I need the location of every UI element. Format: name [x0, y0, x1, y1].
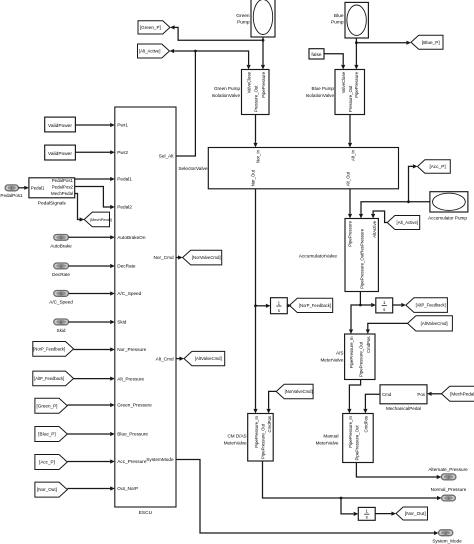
- block: PedalSignals: [29, 178, 75, 207]
- svg-text:Green_Pressure: Green_Pressure: [117, 403, 152, 408]
- wire NorP_Feedback to Nor_Pressure: [74, 347, 115, 351]
- from tag [Alt_Active] (accumulator): [387, 216, 420, 230]
- valve block: A/S MeterValve: [320, 334, 375, 380]
- svg-text:[AltValveCmd]: [AltValveCmd]: [195, 356, 222, 361]
- inport 2 AutoBrake: [54, 235, 69, 241]
- svg-text:PipePressure: PipePressure: [354, 71, 359, 97]
- svg-text:Alt_Out: Alt_Out: [346, 171, 351, 186]
- svg-text:[NorP_Feedback]: [NorP_Feedback]: [299, 303, 331, 308]
- wire AutoBrake to AutoBrakeOn: [69, 235, 115, 239]
- svg-text:PipePressure_Out: PipePressure_Out: [355, 425, 360, 461]
- svg-text:Pressure_Out: Pressure_Out: [253, 85, 258, 112]
- svg-text:CmdPos: CmdPos: [267, 416, 272, 432]
- label DecRate: [52, 272, 70, 277]
- svg-text:[Green_P]: [Green_P]: [140, 25, 161, 30]
- integrator block 1/s (alt feedback): [376, 298, 393, 313]
- block: MechanicalPedal: [380, 385, 427, 411]
- from tag [NorValveCmd] (middle): [276, 384, 313, 399]
- svg-text:Nor_Out: Nor_Out: [251, 169, 256, 186]
- svg-text:[MechPedal]: [MechPedal]: [90, 217, 112, 222]
- svg-text:Pedal1: Pedal1: [117, 177, 132, 182]
- svg-text:ValidPower: ValidPower: [48, 123, 72, 129]
- svg-text:Blue: Blue: [334, 13, 344, 19]
- svg-text:Pwr2: Pwr2: [117, 150, 128, 155]
- block: ValidPower 1: [45, 117, 76, 132]
- wire MechanicalPedal Cmd to Manual CmdPos: [363, 394, 380, 413]
- goto tag [Green_P] (top left): [138, 21, 170, 34]
- svg-text:PedalSignals: PedalSignals: [38, 201, 67, 207]
- svg-text:AltActive: AltActive: [372, 220, 377, 237]
- from tag [AltP_Feedback] (left column): [33, 371, 74, 386]
- svg-text:[Blue_P]: [Blue_P]: [38, 432, 55, 437]
- wire [AltValveCmd] to A/S CmdPos: [366, 323, 408, 334]
- svg-text:ValveClose: ValveClose: [341, 71, 346, 93]
- svg-text:Pedal1: Pedal1: [31, 185, 45, 190]
- svg-text:Accumulator Pump: Accumulator Pump: [428, 216, 467, 221]
- svg-text:SystemMode: SystemMode: [146, 457, 174, 462]
- valve block: Manual MeterValve: [316, 414, 374, 463]
- svg-text:A/S: A/S: [336, 351, 343, 356]
- svg-text:[NorP_Feedback]: [NorP_Feedback]: [33, 346, 65, 351]
- svg-text:PipePressure: PipePressure: [261, 71, 266, 97]
- wire Alt_Out to AccumulatorValve PipePressure: [348, 189, 352, 219]
- svg-text:DecRate: DecRate: [52, 272, 70, 277]
- from tag [Green_P] (left column): [35, 398, 67, 413]
- wire AltP_Feedback to Alt_Pressure: [74, 377, 115, 381]
- wire PedalPos1 to Pedal1: [75, 177, 115, 181]
- svg-text:Cmd: Cmd: [382, 392, 392, 397]
- svg-text:CM D/AS: CM D/AS: [227, 434, 246, 439]
- label AutoBrake: [50, 243, 72, 248]
- svg-text:Acc_Pressure: Acc_Pressure: [117, 459, 147, 464]
- svg-text:PipePressure_OutResPressure: PipePressure_OutResPressure: [359, 228, 364, 289]
- valve block: SelectorValve: [178, 148, 398, 189]
- wire Manual valve out to Alternate_Pressure: [356, 463, 441, 480]
- wire Sel_Alt to Alt_Active goto and Green valve ValveClose: [170, 49, 251, 156]
- label Alternate_Pressure: [428, 467, 468, 472]
- label A/C_Speed: [49, 299, 73, 304]
- svg-text:AccumulatorValve: AccumulatorValve: [299, 254, 338, 260]
- svg-text:[AltP_Feedback]: [AltP_Feedback]: [34, 376, 64, 381]
- wire ValidPower2 to Pwr2: [75, 150, 114, 154]
- svg-text:PipePressure: PipePressure: [348, 220, 353, 246]
- wire CM valve out to Normal_Pressure and integrator3: [263, 461, 442, 516]
- svg-text:PipePressure_In: PipePressure_In: [348, 415, 353, 447]
- wire Skid: [69, 320, 115, 324]
- svg-text:[AltP_Feedback]: [AltP_Feedback]: [416, 303, 446, 308]
- outport 1 Normal_Pressure: [442, 495, 456, 501]
- valve block: AccumulatorValve: [299, 219, 379, 292]
- source pump block: Accumulator Pump: [428, 192, 468, 221]
- svg-text:[Acc_P]: [Acc_P]: [430, 164, 446, 169]
- svg-text:Pump: Pump: [237, 19, 250, 25]
- svg-text:[Blue_P]: [Blue_P]: [422, 40, 440, 45]
- wire [Alt_Active] from tag to AltActive input: [371, 211, 387, 223]
- svg-text:ValveClose: ValveClose: [246, 71, 251, 93]
- label Normal_Pressure: [431, 487, 467, 492]
- from tag [AltValveCmd] (right): [408, 316, 453, 331]
- wire DecRate: [69, 264, 115, 268]
- svg-text:DecRate: DecRate: [117, 264, 136, 269]
- from tag [Nor_Out] (left column): [35, 482, 67, 497]
- svg-text:PipePressure_Out: PipePressure_Out: [261, 423, 266, 459]
- wire [NorValveCmd] to CM CmdPos: [267, 391, 277, 413]
- svg-text:[Alt_Active]: [Alt_Active]: [397, 220, 419, 225]
- goto tag [Alt_Active] (top left): [138, 44, 170, 58]
- svg-text:CmdPos: CmdPos: [364, 416, 369, 432]
- svg-text:Sel_Alt: Sel_Alt: [159, 154, 175, 159]
- svg-text:CmdPos: CmdPos: [366, 337, 371, 353]
- svg-text:Blue_Pressure: Blue_Pressure: [117, 432, 148, 437]
- wire integrator2 to [AltP_Feedback]: [393, 303, 406, 307]
- goto tag [MechPedal] (left): [84, 212, 112, 227]
- source pump block: Green Pump: [236, 0, 275, 37]
- label Skid: [57, 328, 66, 333]
- wire SystemMode to System_Mode outport: [176, 460, 439, 536]
- valve block: CM D/AS MeterValve: [224, 414, 274, 462]
- svg-text:Green: Green: [236, 13, 250, 19]
- svg-text:AutoBrakeOn: AutoBrakeOn: [117, 235, 146, 240]
- wire [Blue_P] to Blue_Pressure: [67, 432, 115, 436]
- svg-text:IsolationValve: IsolationValve: [212, 93, 241, 98]
- wire [Green_P] to Green_Pressure: [67, 403, 115, 407]
- wire Alt_Cmd to [AltValveCmd]: [176, 357, 184, 361]
- goto tag [Acc_P] (right): [418, 160, 451, 173]
- svg-text:Skid: Skid: [57, 328, 66, 333]
- wire [Acc_P] to Acc_Pressure: [67, 459, 115, 463]
- integrator block 1/s (normal feedback): [271, 298, 288, 314]
- wire Green Pump out to [Green_P] goto and PipePressure: [170, 25, 265, 69]
- svg-text:MeterValve: MeterValve: [320, 357, 343, 362]
- from tag [MechPedal] (far right): [442, 386, 474, 401]
- source pump block: Blue Pump: [331, 2, 368, 38]
- label PedalPos1: [0, 193, 23, 198]
- svg-text:Skid: Skid: [117, 320, 127, 325]
- inport 3 DecRate: [54, 263, 69, 269]
- svg-text:MeterValve: MeterValve: [224, 440, 247, 445]
- svg-text:ValidPower: ValidPower: [48, 151, 72, 157]
- from tag [Blue_P] (left column): [35, 427, 67, 442]
- wire integrator3 to [Nor_Out] goto: [375, 512, 396, 516]
- svg-text:Alt_Cmd: Alt_Cmd: [156, 356, 174, 361]
- svg-text:ESCU: ESCU: [139, 510, 153, 516]
- goto tag [Nor_Out] (bottom): [396, 507, 428, 520]
- svg-text:IsolationValve: IsolationValve: [306, 93, 335, 98]
- from tag [Acc_P] (left column): [35, 455, 67, 470]
- svg-text:Pwr1: Pwr1: [117, 123, 128, 128]
- goto tag [NorP_Feedback]: [289, 298, 332, 312]
- wire AccumulatorValve out to integrator2 and A/S valve: [349, 292, 376, 335]
- wire Green valve out to Nor_In: [253, 115, 257, 148]
- wire inport1 to PedalSignals: [18, 186, 29, 190]
- svg-text:[NorValveCmd]: [NorValveCmd]: [285, 389, 313, 394]
- outport 2 Alternate_Pressure: [441, 474, 456, 480]
- svg-text:[Nor_Out]: [Nor_Out]: [405, 511, 426, 517]
- constant block: false: [309, 49, 324, 59]
- goto tag [AltValveCmd]: [184, 351, 225, 365]
- subsystem block: ESCU with port labels: [115, 107, 176, 516]
- svg-text:[NorValveCmd]: [NorValveCmd]: [192, 255, 221, 260]
- svg-text:Pedal2: Pedal2: [117, 205, 132, 210]
- svg-text:Alternate_Pressure: Alternate_Pressure: [428, 467, 468, 472]
- svg-text:PipePressure_In: PipePressure_In: [349, 336, 354, 368]
- svg-text:[Nor_Out]: [Nor_Out]: [37, 487, 57, 492]
- label System_Mode: [432, 539, 462, 544]
- wire A/C_Speed: [69, 291, 115, 295]
- svg-text:Out_NorP: Out_NorP: [117, 486, 138, 491]
- wire PedalPos2 to Pedal2: [75, 187, 115, 210]
- goto tag [NorValveCmd]: [183, 250, 222, 265]
- svg-text:Nor_Cmd: Nor_Cmd: [154, 255, 174, 260]
- svg-text:Pressure_Out: Pressure_Out: [348, 85, 353, 112]
- svg-text:PedalPos1: PedalPos1: [0, 193, 23, 198]
- wire [MechPedal] to Pos: [427, 392, 442, 396]
- svg-text:MechanicalPedal: MechanicalPedal: [386, 406, 421, 411]
- svg-text:MechPedal: MechPedal: [51, 191, 73, 196]
- wire integrator1 to [NorP_Feedback]: [287, 304, 292, 308]
- svg-text:[MechPedal]: [MechPedal]: [450, 391, 474, 396]
- svg-text:PedalPos2: PedalPos2: [52, 184, 74, 189]
- svg-text:Pos: Pos: [417, 392, 425, 397]
- wire A/S valve out to Manual valve: [347, 380, 360, 414]
- svg-text:false: false: [311, 52, 321, 58]
- svg-text:[AltValveCmd]: [AltValveCmd]: [421, 321, 448, 326]
- integrator block 1/s (normal out): [358, 507, 375, 520]
- valve block: Blue Pump IsolationValve: [306, 70, 365, 115]
- wire ValidPower1 to Pwr1: [75, 123, 114, 127]
- goto tag [AltP_Feedback]: [406, 298, 448, 313]
- svg-text:SelectorValve: SelectorValve: [178, 166, 208, 172]
- svg-text:[Acc_P]: [Acc_P]: [39, 460, 55, 465]
- wire Nor_Out down to CM valve with branch to integrator: [253, 189, 270, 414]
- svg-text:Green Pump: Green Pump: [214, 86, 240, 91]
- wire Nor_Cmd to [NorValveCmd]: [176, 255, 183, 259]
- svg-text:Alt_Pressure: Alt_Pressure: [117, 376, 144, 381]
- svg-text:[Green_P]: [Green_P]: [36, 403, 57, 408]
- svg-text:Normal_Pressure: Normal_Pressure: [431, 487, 467, 492]
- block: ValidPower 2: [45, 145, 76, 160]
- svg-text:PedalPos1: PedalPos1: [52, 178, 74, 183]
- svg-text:AutoBrake: AutoBrake: [50, 243, 72, 248]
- svg-text:MeterValve: MeterValve: [316, 440, 339, 445]
- inport 1 PedalPos1: [5, 185, 18, 191]
- wire Blue Pump out to [Blue_P] goto and PipePressure: [354, 38, 411, 70]
- goto tag [Blue_P] (top right): [411, 35, 443, 49]
- svg-text:A/C_Speed: A/C_Speed: [117, 291, 141, 296]
- from tag [NorP_Feedback] (left column): [33, 342, 74, 357]
- svg-text:Pump: Pump: [331, 19, 344, 25]
- svg-text:Manual: Manual: [323, 434, 338, 439]
- wire false to Blue ValveClose: [324, 54, 345, 70]
- svg-text:Blue Pump: Blue Pump: [312, 86, 335, 91]
- svg-text:Nor_In: Nor_In: [255, 149, 260, 163]
- svg-text:System_Mode: System_Mode: [432, 539, 462, 544]
- svg-text:PipePressure_In: PipePressure_In: [254, 415, 259, 447]
- valve block: Green Pump IsolationValve: [212, 70, 269, 115]
- svg-text:Nor_Pressure: Nor_Pressure: [117, 347, 146, 352]
- outport 3 System_Mode: [439, 530, 453, 536]
- wire [Nor_Out] to Out_NorP: [67, 486, 115, 490]
- inport 5 A/C_Speed: [54, 291, 69, 297]
- svg-text:A/C_Speed: A/C_Speed: [49, 299, 73, 304]
- svg-text:PipePressure_Out: PipePressure_Out: [359, 341, 364, 377]
- wire Accumulator Pump to ResPressure and [Acc_P] goto: [359, 164, 430, 218]
- wire Blue valve out to Alt_In: [348, 115, 352, 148]
- inport 6 Skid: [54, 319, 69, 325]
- svg-text:[Alt_Active]: [Alt_Active]: [139, 49, 161, 54]
- svg-text:Alt_In: Alt_In: [350, 149, 355, 161]
- wire MechPedal to goto tag: [75, 194, 85, 222]
